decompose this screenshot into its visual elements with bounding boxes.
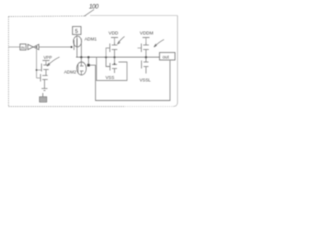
transistor M1 (ellipse enclosed) — [73, 36, 81, 57]
VPP supply bar — [43, 60, 50, 62]
transistor MN1 (pull-down NMOS) — [41, 74, 48, 89]
annotation arrow to MP2 — [118, 37, 125, 45]
svg-text:out: out — [163, 55, 170, 60]
transistor MN2 (NMOS to VSS) — [106, 57, 117, 73]
transistor MN2 group box — [97, 57, 128, 80]
wire node A (inverter output to M1 gate) — [39, 46, 72, 48]
junction at x106 — [105, 56, 107, 58]
transistor MP3 (VDDM PMOS) — [141, 43, 149, 58]
MP2 gate lead — [106, 48, 110, 57]
transistor MN3 (NMOS to VSSL) — [142, 57, 149, 73]
junction feedback corner — [87, 64, 90, 67]
leader line from 100 to dashed box — [85, 10, 95, 17]
junction at x114 — [114, 56, 116, 58]
svg-text:VDD: VDD — [109, 30, 119, 35]
svg-text:VSSL: VSSL — [140, 78, 152, 83]
junction MP1 gate — [36, 69, 38, 71]
svg-text:ADM1: ADM1 — [85, 37, 98, 42]
svg-text:ADM2: ADM2 — [64, 70, 77, 75]
ground VSS symbol — [40, 89, 48, 103]
transistor MP1 (VPP PMOS) — [42, 63, 49, 74]
svg-text:IN: IN — [21, 46, 25, 50]
junction MN2 drain-gate — [114, 63, 116, 65]
annotation arrow to MP3 — [154, 40, 164, 48]
junction at x88 — [87, 56, 89, 58]
MP1 gate lead — [37, 69, 42, 71]
wire node A vertical feedback — [36, 47, 38, 78]
svg-text:VPP: VPP — [44, 55, 53, 60]
input pad IN — [20, 44, 26, 50]
svg-text:VSS: VSS — [106, 75, 115, 80]
component box S1 (top current source pad) — [73, 27, 82, 35]
transistor M2 (ellipse enclosed, below rail) — [77, 57, 87, 75]
transistor MP2 (VDD PMOS) — [110, 43, 118, 58]
svg-text:5: 5 — [75, 29, 78, 35]
junction at x146 — [145, 56, 147, 58]
MP3 gate lead — [138, 47, 142, 49]
svg-text:VDDM: VDDM — [140, 30, 154, 35]
outer dashed box (circuit block boundary) — [9, 16, 178, 107]
junction at M1 gate — [71, 46, 73, 48]
output net wire (node OUT rail) — [76, 56, 160, 58]
wire from left border to input pad — [9, 46, 21, 48]
junction node A — [36, 46, 38, 48]
feedback wire from node x88 down and around to out pad — [89, 57, 171, 100]
inverter INV1 (bowtie pair) — [28, 44, 39, 49]
annotation arrow to MP1 — [47, 57, 60, 66]
VDD supply bar — [111, 37, 118, 39]
junction at x81 — [80, 56, 82, 58]
MN1 gate lead — [37, 77, 41, 79]
wire S1 to M1 — [76, 35, 78, 38]
out pad — [160, 53, 176, 61]
VDDM supply bar — [143, 37, 150, 39]
